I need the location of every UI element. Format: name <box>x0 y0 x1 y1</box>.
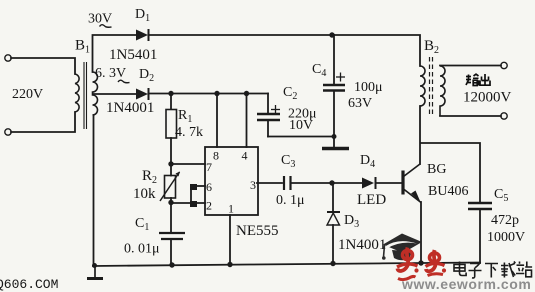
wire: C2 bottom lead <box>267 121 269 137</box>
capacitor C4 electrolytic <box>323 85 345 91</box>
wire: C4 bottom lead to ground symbol <box>333 91 335 147</box>
svg-text:BU406: BU406 <box>428 184 468 199</box>
wire: R2 bottom lead <box>170 198 172 203</box>
capacitor C3 <box>284 176 291 190</box>
ground: C4 negative terminal <box>322 147 349 150</box>
svg-text:7: 7 <box>206 160 212 174</box>
label 输出 (output) hand-drawn glyphs <box>466 74 490 86</box>
svg-text:10V: 10V <box>289 118 313 133</box>
wire: pin 6 wire <box>191 185 205 187</box>
resistor R1 <box>166 110 177 139</box>
transformer B1 core <box>84 62 87 129</box>
wire: emitter to ground rail <box>420 202 422 264</box>
transformer B2 primary coil <box>420 66 425 106</box>
svg-text:4: 4 <box>242 149 248 163</box>
capacitor C2 electrolytic <box>257 114 280 120</box>
svg-text:220V: 220V <box>12 87 43 102</box>
node: pin2 / R2-C1 <box>168 200 173 205</box>
svg-text:12000V: 12000V <box>463 90 512 106</box>
svg-text:2: 2 <box>206 199 212 213</box>
node: pin3 line / D3 <box>329 180 334 185</box>
wire: 220V primary top lead <box>11 58 75 74</box>
svg-text:1N4001: 1N4001 <box>338 237 386 253</box>
wire: pin 1 to ground rail <box>229 215 231 265</box>
wire: pin 8 supply line <box>216 94 218 148</box>
wire: pin6-pin2 link vertical <box>190 186 192 203</box>
terminal: 220V top input <box>5 55 11 61</box>
watermark graduation cap <box>382 234 422 261</box>
svg-text:LED: LED <box>357 192 386 208</box>
wire: pin 2 wire <box>171 202 205 204</box>
node: pin7 / R1-R2 <box>168 161 173 166</box>
svg-text:3: 3 <box>250 178 256 192</box>
wire: R1 bottom lead to pin7 node <box>170 138 172 176</box>
plus sign C4 <box>336 73 345 82</box>
watermark text 电子下载站 hand-drawn glyphs <box>454 262 532 278</box>
svg-text:1: 1 <box>228 202 234 216</box>
svg-text:63V: 63V <box>348 96 372 111</box>
svg-text:100μ: 100μ <box>354 80 383 95</box>
wire: 6.3V rail D2 cathode to C2 corner <box>149 93 268 95</box>
node: rail left corner <box>92 263 97 268</box>
pad: pin6 link top <box>190 184 197 190</box>
pad: pin2 link bottom <box>190 201 197 207</box>
node: 30V rail / C4 <box>329 32 334 37</box>
svg-text:30V: 30V <box>88 12 112 27</box>
transformer B2 core <box>430 57 433 116</box>
diode D1 <box>136 29 149 41</box>
wire: C5 bottom to ground rail <box>479 210 481 263</box>
label 6.3V <box>95 66 130 83</box>
svg-text:472p: 472p <box>491 213 519 228</box>
transformer B1 primary coil <box>75 74 79 112</box>
terminal: 220V bottom input <box>5 129 11 135</box>
diode D4 <box>362 177 376 189</box>
wire: pin 3 output to C3 <box>257 182 282 184</box>
IC U1 NE555 box <box>205 147 258 215</box>
wire: B2 secondary top lead to output terminal <box>440 65 501 67</box>
wire: R1 top lead from 6.3V rail <box>170 94 172 110</box>
transistor Q1 BU406 <box>403 164 421 203</box>
diode D3 <box>327 212 340 225</box>
svg-text:1000V: 1000V <box>487 230 525 245</box>
ground: main rail left <box>87 265 103 279</box>
svg-text:8: 8 <box>213 149 219 163</box>
watermark red bug char 1 <box>397 248 419 280</box>
wire: R2 bottom to C1 top <box>170 202 172 232</box>
wire: B1 secondary bottom to ground rail <box>93 115 95 266</box>
watermark red bug char 2 <box>426 250 447 276</box>
svg-text:NE555: NE555 <box>236 223 279 239</box>
wire: bottom ground rail <box>93 263 480 267</box>
svg-text:4. 7k: 4. 7k <box>175 125 203 140</box>
svg-text:BG: BG <box>427 162 446 177</box>
wire: 220V primary bottom lead <box>11 112 75 132</box>
wire: pin 4 supply line <box>246 94 248 148</box>
wire: pin 7 wire <box>171 163 205 165</box>
wire: D3 cathode lead up to node <box>332 183 334 211</box>
wire: C4 top lead from 30V rail <box>333 35 335 84</box>
terminal: output bottom <box>501 113 507 119</box>
wire: D3 anode lead to ground rail <box>332 225 334 264</box>
capacitor C5 <box>468 203 492 209</box>
svg-text:1N4001: 1N4001 <box>106 100 154 116</box>
diode D2 <box>136 88 149 100</box>
wire: collector node to C5 top <box>421 143 480 202</box>
transformer B2 secondary coil <box>440 66 445 116</box>
terminal: output top <box>501 62 507 68</box>
node: rail / C1 <box>169 262 174 267</box>
svg-text:Q606.COM: Q606.COM <box>0 277 58 292</box>
svg-text:0. 1μ: 0. 1μ <box>276 193 305 208</box>
node: 6.3V rail / pin8 <box>214 91 219 96</box>
wire: 6.3V tap to D2 anode <box>93 93 136 95</box>
wire: top 30V rail left of D1 <box>93 35 137 72</box>
wire: D4 cathode to transistor base <box>377 182 401 184</box>
potentiometer R2 <box>160 172 180 202</box>
wire: B2 secondary bottom lead to output terminal <box>440 115 501 117</box>
wire: B2 primary bottom to collector <box>419 106 421 164</box>
wire: C1 bottom to ground rail <box>170 240 172 266</box>
svg-text:6: 6 <box>206 180 212 194</box>
node: 6.3V rail / pin4 <box>244 91 249 96</box>
node: rail / emitter <box>418 260 423 265</box>
node: C2-C4 ground link <box>332 134 337 139</box>
wire: C3 to D4 anode <box>292 182 362 184</box>
wire: C2 top lead from 6.3V rail <box>267 94 269 114</box>
svg-text:1N5401: 1N5401 <box>109 47 157 63</box>
svg-text:6. 3V: 6. 3V <box>95 66 126 81</box>
plus sign C2 <box>271 105 280 114</box>
transformer B1 secondary coil <box>93 72 98 115</box>
svg-text:0. 01μ: 0. 01μ <box>124 242 160 257</box>
node: rail / D3 <box>330 261 335 266</box>
svg-text:10k: 10k <box>133 186 156 202</box>
wire: top 30V rail D1 cathode to B2 corner <box>149 35 420 66</box>
capacitor C1 <box>159 233 185 239</box>
node: rail / pin1 <box>227 262 232 267</box>
svg-text:www.eeworm.com: www.eeworm.com <box>401 276 531 292</box>
label 30V <box>88 12 112 28</box>
wire: C2 bottom to C4 ground node <box>268 136 334 138</box>
node: 6.3V rail / R1 <box>168 91 173 96</box>
